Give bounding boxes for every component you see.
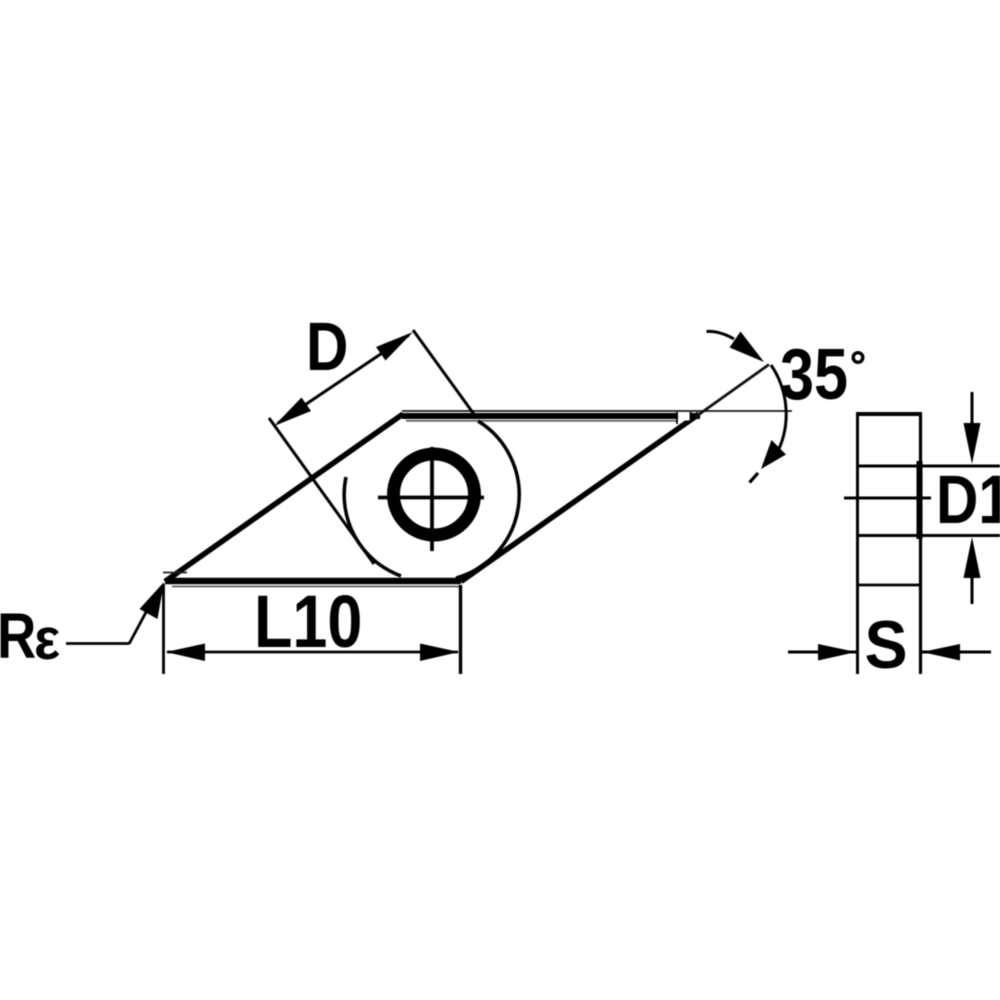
degree symbol xyxy=(853,353,863,363)
svg-text:L10: L10 xyxy=(254,580,362,663)
svg-text:R: R xyxy=(0,600,36,672)
D1 dimension upper arrowhead xyxy=(964,423,981,464)
label D1 xyxy=(936,461,1000,539)
chip breaker arc left xyxy=(344,477,401,576)
side view right edge thick middle xyxy=(917,461,923,539)
D dimension upper arrowhead xyxy=(376,332,413,361)
hole crosshair horizontal xyxy=(378,496,484,500)
35 degree top arrowhead xyxy=(730,332,765,363)
R epsilon leader horizontal xyxy=(66,642,129,645)
insert top edge thin upper line / extension to 35deg arc xyxy=(402,410,792,412)
insert right edge xyxy=(461,414,699,582)
D dimension lower extension line xyxy=(269,418,374,564)
svg-text:D1: D1 xyxy=(936,461,1000,539)
D1 dimension upper arrow stem xyxy=(971,392,974,428)
D dimension lower arrowhead xyxy=(274,398,311,427)
35 degree top arrow tail xyxy=(707,331,735,339)
D1 dimension lower arrowhead xyxy=(964,537,981,578)
L10 left arrowhead xyxy=(166,644,205,662)
hole crosshair vertical xyxy=(430,447,434,551)
D dimension upper extension line xyxy=(413,330,476,417)
D1 dimension lower arrow stem xyxy=(971,573,974,604)
insert left edge xyxy=(165,414,403,582)
right edge extension line toward 35deg arc xyxy=(696,365,769,417)
S dimension left line xyxy=(788,651,856,654)
nose radius notch right nose xyxy=(678,412,690,420)
label R epsilon xyxy=(0,600,36,672)
L10 dimension line xyxy=(167,651,458,654)
35 degree arc xyxy=(771,365,786,455)
side view center mark line xyxy=(844,497,931,500)
35 degree bottom arrow tail xyxy=(750,473,759,483)
R epsilon arrowhead xyxy=(140,582,165,619)
label L10 xyxy=(254,580,362,663)
side view right edge xyxy=(919,412,922,674)
L10 right extension line xyxy=(459,585,462,674)
svg-text:D: D xyxy=(306,308,348,386)
chip breaker arc right xyxy=(456,421,519,578)
svg-text:ε: ε xyxy=(34,607,60,672)
side view horizontal line 3 xyxy=(857,584,920,587)
R epsilon leader diagonal xyxy=(129,601,152,644)
insert top edge thin lower line xyxy=(406,420,676,422)
insert top edge xyxy=(402,413,700,419)
D dimension line xyxy=(278,335,409,423)
svg-text:S: S xyxy=(865,608,908,684)
svg-text:35: 35 xyxy=(780,335,848,415)
S dimension left arrowhead xyxy=(818,644,856,661)
label S xyxy=(865,608,908,684)
L10 right arrowhead xyxy=(420,644,459,662)
L10 left extension line xyxy=(162,584,165,674)
side view left edge xyxy=(856,412,859,674)
side view top edge xyxy=(856,412,922,416)
S dimension right arrowhead xyxy=(922,644,960,661)
label D xyxy=(306,308,348,386)
side view horizontal line 1 xyxy=(856,465,1000,468)
side view horizontal line 2 xyxy=(856,534,1000,537)
nose radius tick left nose xyxy=(163,572,187,574)
insert bottom edge xyxy=(165,578,461,585)
label 35deg xyxy=(780,335,848,415)
hole ring xyxy=(394,454,475,535)
35 degree bottom arrowhead xyxy=(761,440,786,469)
insert bottom edge thin lower line xyxy=(172,586,460,588)
S dimension right line xyxy=(922,651,991,654)
